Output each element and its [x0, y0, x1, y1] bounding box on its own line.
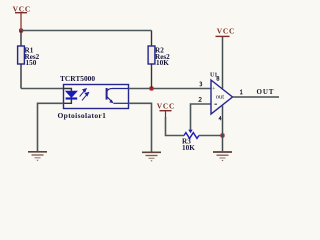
ground 3 (op-amp) [213, 152, 232, 161]
LED diode [64, 89, 78, 104]
pin number 3 [200, 82, 202, 86]
svg-text:OUT: OUT [257, 88, 275, 96]
svg-text:U1: U1 [210, 73, 217, 79]
svg-text:10K: 10K [182, 144, 195, 152]
pin number 1 [240, 90, 243, 94]
resistor R1 [18, 31, 40, 89]
ground 2 (emitter) [142, 152, 161, 161]
power VCC2 (middle) [157, 102, 175, 118]
wire op-amp V+ to VCC3 [222, 37, 224, 89]
wire R3 wiper to op-amp pin 2 [191, 104, 212, 130]
svg-text:TCRT5000: TCRT5000 [60, 74, 95, 83]
wire VCC2 down to R3 [166, 117, 185, 136]
optoisolator box [64, 85, 129, 109]
op-amp U1 [210, 73, 233, 121]
wire emitter to ground2 [129, 103, 152, 151]
wire LED cathode to ground1 [38, 103, 64, 151]
potentiometer R3 [182, 130, 199, 152]
svg-text:+: + [212, 85, 216, 92]
svg-text:Optoisolator1: Optoisolator1 [58, 111, 107, 120]
pin number 2 [199, 97, 202, 101]
wire R3 right to op-amp V- column [199, 135, 223, 137]
junction dot V- column [220, 133, 224, 137]
svg-text:out: out [216, 93, 225, 100]
wire output to OUT [233, 96, 280, 98]
power VCC3 (op-amp) [216, 26, 236, 36]
junction dot R2 bottom [149, 86, 153, 90]
wire top bus VCC to R2 [21, 30, 152, 32]
wire op-amp V- to ground3 [222, 105, 224, 151]
svg-text:VCC: VCC [217, 26, 235, 35]
wire R1 bottom to optoisolator anode [21, 88, 64, 90]
wire collector to op-amp pin 3 [129, 88, 212, 90]
power VCC1 (top left) [13, 5, 31, 31]
svg-text:VCC: VCC [157, 102, 175, 111]
junction dot at VCC1 [19, 29, 23, 33]
phototransistor [107, 88, 129, 103]
svg-text:150: 150 [26, 59, 37, 67]
resistor R2 [148, 31, 170, 89]
ground 1 (LED cathode) [28, 152, 47, 161]
light emission arrows [80, 89, 89, 101]
svg-text:10K: 10K [156, 59, 169, 67]
